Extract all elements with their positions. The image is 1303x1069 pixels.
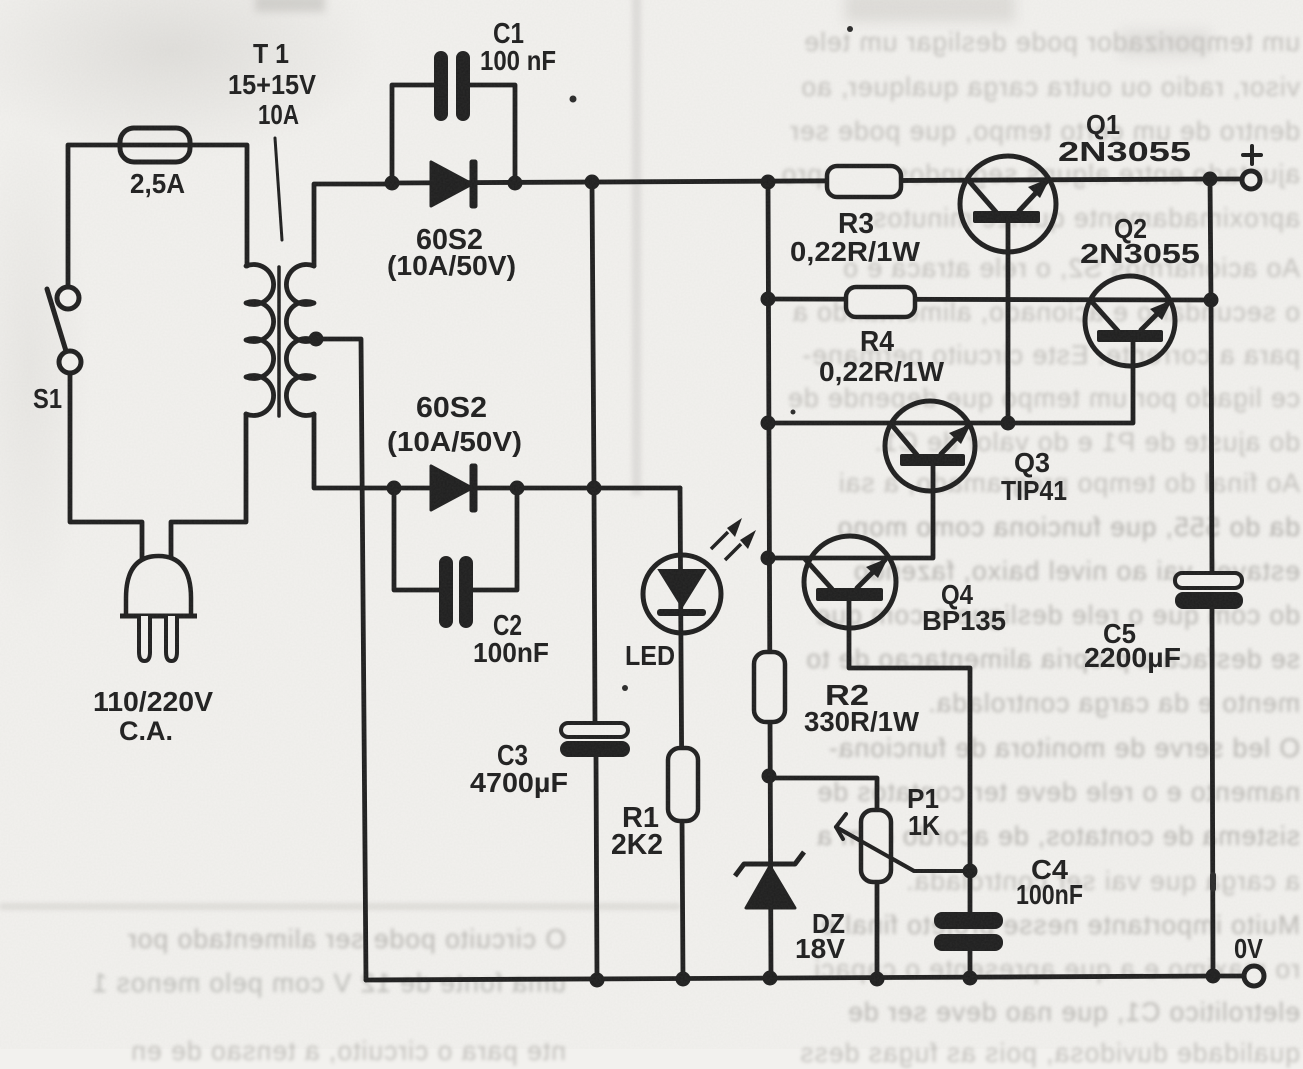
svg-text:Q3: Q3 [1014,447,1050,478]
svg-text:(10A/50V): (10A/50V) [387,426,522,457]
svg-text:15+15V: 15+15V [228,69,316,100]
svg-text:10A: 10A [258,99,299,130]
svg-text:60S2: 60S2 [416,392,487,424]
svg-text:2N3055: 2N3055 [1058,136,1191,167]
svg-text:(10A/50V): (10A/50V) [387,250,516,281]
svg-text:100 nF: 100 nF [480,45,556,76]
svg-text:100nF: 100nF [473,637,549,668]
svg-text:2N3055: 2N3055 [1080,238,1200,269]
svg-text:TIP41: TIP41 [1001,475,1067,506]
svg-text:T 1: T 1 [253,38,289,69]
svg-text:4700µF: 4700µF [470,767,568,798]
svg-text:2200µF: 2200µF [1084,642,1181,673]
svg-text:BP135: BP135 [922,605,1006,636]
svg-text:0,22R/1W: 0,22R/1W [790,236,921,267]
svg-text:110/220V: 110/220V [93,686,213,717]
svg-text:2,5A: 2,5A [130,168,185,199]
svg-text:R4: R4 [860,326,894,358]
svg-text:S1: S1 [33,383,62,414]
svg-text:LED: LED [625,640,675,671]
svg-text:100nF: 100nF [1016,879,1083,910]
svg-text:C.A.: C.A. [119,716,173,746]
svg-text:18V: 18V [795,933,845,964]
svg-text:330R/1W: 330R/1W [804,706,920,737]
svg-text:2K2: 2K2 [611,829,663,861]
svg-text:1K: 1K [908,810,940,841]
svg-text:0V: 0V [1234,933,1263,964]
svg-text:0,22R/1W: 0,22R/1W [819,356,945,387]
